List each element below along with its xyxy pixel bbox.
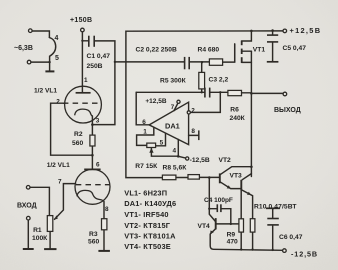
svg-text:ВХОД: ВХОД	[17, 203, 37, 210]
svg-text:5: 5	[55, 55, 59, 62]
svg-text:5: 5	[160, 140, 164, 147]
svg-text:560: 560	[88, 239, 99, 246]
svg-text:C2 0,22 250В: C2 0,22 250В	[136, 46, 177, 53]
svg-text:VT2- КТ815Г: VT2- КТ815Г	[124, 221, 171, 230]
svg-text:R8 5,6К: R8 5,6К	[163, 165, 188, 172]
svg-text:VT1: VT1	[253, 46, 266, 53]
svg-text:VT4- КТ503Е: VT4- КТ503Е	[124, 242, 171, 251]
svg-text:-12,5В: -12,5В	[291, 249, 318, 258]
svg-text:1/2 VL1: 1/2 VL1	[34, 88, 57, 95]
svg-text:VT1- IRF540: VT1- IRF540	[124, 210, 169, 219]
svg-text:2: 2	[56, 98, 60, 105]
svg-text:R7 15К: R7 15К	[135, 163, 158, 170]
svg-text:250В: 250В	[87, 63, 103, 70]
svg-text:R5 300К: R5 300К	[160, 77, 187, 84]
svg-text:C4 100pF: C4 100pF	[204, 197, 233, 204]
svg-text:R10 0,47/5ВТ: R10 0,47/5ВТ	[254, 203, 297, 210]
svg-text:6: 6	[96, 162, 100, 169]
svg-text:R9: R9	[227, 231, 236, 238]
svg-text:R2: R2	[74, 131, 83, 138]
svg-text:8: 8	[191, 128, 195, 135]
svg-text:3: 3	[96, 117, 100, 124]
svg-text:C1 0,47: C1 0,47	[87, 53, 111, 60]
svg-text:C6 0,47: C6 0,47	[279, 234, 303, 241]
svg-text:4: 4	[173, 147, 177, 154]
svg-text:R3: R3	[89, 231, 98, 238]
svg-text:VT4: VT4	[198, 223, 211, 230]
svg-text:VT3- КТ8101А: VT3- КТ8101А	[124, 232, 176, 241]
svg-text:6: 6	[142, 119, 146, 126]
svg-text:C3 2,2: C3 2,2	[209, 77, 229, 84]
svg-text:240К: 240К	[230, 115, 246, 122]
svg-text:1: 1	[84, 77, 88, 84]
svg-text:VT3: VT3	[230, 172, 243, 179]
svg-text:DA1: DA1	[165, 121, 180, 130]
svg-text:4: 4	[55, 35, 59, 42]
svg-text:-12,5В: -12,5В	[190, 157, 210, 164]
svg-text:2: 2	[191, 107, 195, 114]
svg-text:DA1- К140УД6: DA1- К140УД6	[124, 199, 176, 208]
svg-text:7: 7	[171, 104, 175, 111]
svg-text:~6,3В: ~6,3В	[14, 45, 33, 52]
svg-text:VT2: VT2	[219, 157, 232, 164]
svg-text:+12,5В: +12,5В	[145, 98, 166, 105]
svg-text:470: 470	[227, 238, 238, 245]
svg-text:+12,5В: +12,5В	[290, 26, 322, 35]
svg-text:560: 560	[72, 140, 83, 147]
svg-text:7: 7	[58, 178, 62, 185]
svg-text:R6: R6	[230, 107, 239, 114]
svg-text:100К: 100К	[32, 235, 48, 242]
svg-text:ВЫХОД: ВЫХОД	[274, 107, 301, 114]
svg-text:R1: R1	[33, 227, 42, 234]
svg-text:8: 8	[105, 206, 109, 213]
svg-text:VL1- 6Н23П: VL1- 6Н23П	[124, 189, 167, 198]
svg-text:+150В: +150В	[70, 17, 92, 24]
svg-text:C5 0,47: C5 0,47	[283, 45, 307, 52]
svg-text:1: 1	[143, 129, 147, 136]
svg-text:1/2 VL1: 1/2 VL1	[47, 162, 70, 169]
svg-text:R4 680: R4 680	[198, 46, 220, 53]
